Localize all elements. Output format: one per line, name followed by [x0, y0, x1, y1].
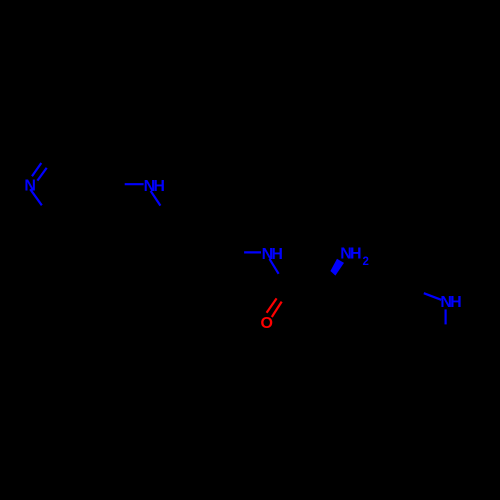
- svg-text:N: N: [24, 177, 35, 194]
- svg-text:NH: NH: [144, 178, 165, 195]
- svg-text:NH: NH: [440, 294, 461, 311]
- svg-text:2: 2: [363, 256, 369, 268]
- svg-text:NH: NH: [262, 246, 283, 263]
- svg-text:O: O: [261, 315, 273, 332]
- svg-text:NH: NH: [340, 246, 361, 263]
